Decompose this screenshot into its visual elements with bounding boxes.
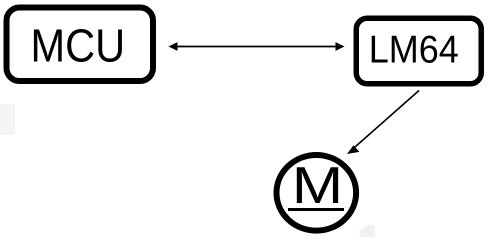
block U1 MCU xyxy=(7,8,154,82)
wire bidirectional arrow MCU to LM64 xyxy=(169,42,345,51)
artifact gray chamfered shape bottom right xyxy=(360,225,375,237)
svg-text:MCU: MCU xyxy=(31,21,126,72)
svg-text:LM64: LM64 xyxy=(369,27,459,71)
motor M1 circle xyxy=(277,155,357,231)
block U2 LM64 xyxy=(356,18,481,84)
artifact gray strip left edge xyxy=(0,104,15,135)
svg-text:M: M xyxy=(292,157,343,215)
motor underline xyxy=(288,208,344,211)
wire arrow LM64 to motor xyxy=(347,91,419,155)
